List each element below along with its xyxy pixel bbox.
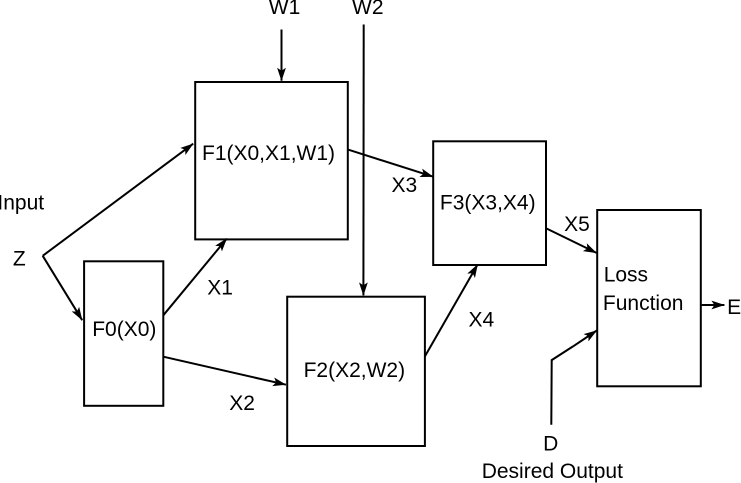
svg-text:X4: X4 xyxy=(469,308,495,331)
box F0 xyxy=(84,261,163,406)
wire D riser xyxy=(551,346,573,424)
svg-text:W2: W2 xyxy=(352,0,384,19)
svg-text:Input: Input xyxy=(0,191,44,214)
svg-text:X2: X2 xyxy=(229,392,255,415)
arrow X2: F0 to F2 xyxy=(163,357,286,385)
arrow X5: F3 to Loss Function xyxy=(547,229,597,253)
svg-text:F2(X2,W2): F2(X2,W2) xyxy=(304,359,406,382)
box F3 xyxy=(433,141,546,265)
arrow Z to F0 xyxy=(43,256,82,320)
box F2 xyxy=(287,297,425,446)
svg-text:Function: Function xyxy=(603,292,684,315)
arrow X3: F1 to F3 xyxy=(348,150,433,177)
arrow Loss Function to E xyxy=(702,304,725,306)
arrow X1: F0 to F1 xyxy=(163,239,227,316)
svg-text:Loss: Loss xyxy=(604,264,648,287)
svg-text:Z: Z xyxy=(13,247,26,270)
svg-text:E: E xyxy=(727,296,741,319)
arrow W1 to F1 xyxy=(281,30,283,81)
svg-text:D: D xyxy=(543,433,558,456)
svg-text:X3: X3 xyxy=(392,174,418,197)
svg-text:X1: X1 xyxy=(207,276,233,299)
svg-text:F1(X0,X1,W1): F1(X0,X1,W1) xyxy=(202,142,335,165)
box Loss Function xyxy=(597,210,701,386)
box F1 xyxy=(195,82,348,239)
arrow Z to F1 xyxy=(43,144,194,256)
svg-text:X5: X5 xyxy=(564,213,590,236)
svg-text:F3(X3,X4): F3(X3,X4) xyxy=(440,191,536,214)
arrow X4: F2 to F3 xyxy=(425,265,478,357)
svg-text:F0(X0): F0(X0) xyxy=(92,318,156,341)
arrow W2 to F2 xyxy=(362,25,364,296)
svg-text:W1: W1 xyxy=(269,0,301,19)
arrow D to Loss Function xyxy=(573,331,597,347)
svg-text:Desired Output: Desired Output xyxy=(482,460,623,483)
